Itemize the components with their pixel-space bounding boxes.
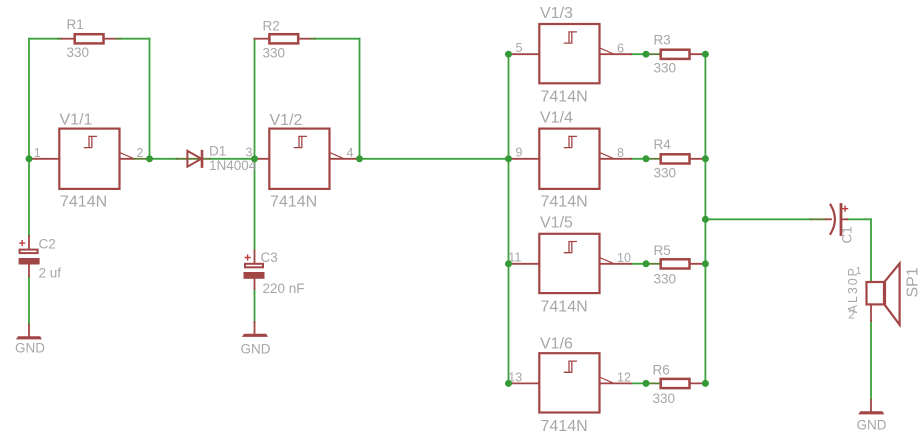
op-amp gate V1/4	[509, 129, 632, 189]
svg-text:9: 9	[516, 145, 523, 159]
capacitor C1 (polarized, horizontal)	[811, 205, 847, 235]
svg-text:12: 12	[617, 371, 631, 385]
svg-text:GND: GND	[15, 341, 45, 356]
svg-text:1N4004: 1N4004	[209, 158, 257, 173]
svg-text:7414N: 7414N	[270, 193, 317, 210]
capacitor C3 (polarized)	[244, 251, 265, 290]
svg-text:C1: C1	[840, 226, 855, 243]
junction node C1 branch	[702, 216, 709, 223]
resistor R1	[58, 34, 120, 43]
junction node pin1/C2	[26, 155, 33, 162]
resistor R3	[649, 50, 706, 59]
wire input bus vertical	[508, 54, 510, 383]
plus sign of C1	[843, 206, 848, 211]
svg-text:330: 330	[654, 61, 677, 76]
svg-text:10: 10	[617, 251, 631, 265]
wire branch to C1	[705, 218, 811, 220]
wire net N$4 vertical down to pin4	[359, 39, 361, 159]
wire net N$2 pin2 to diode	[150, 158, 177, 160]
ground symbol GND (C3)	[242, 322, 268, 337]
plus sign of C3	[245, 255, 250, 260]
junction node 4	[356, 155, 363, 162]
resistor R6	[649, 379, 706, 388]
wire net N$1 top horizontal to R1	[29, 38, 60, 40]
wire net N$4 long horizontal to inputs bus	[360, 158, 509, 160]
svg-text:4: 4	[347, 146, 354, 160]
op-amp gate V1/3	[509, 24, 632, 83]
resistor R5	[649, 259, 706, 268]
plus sign of C2	[20, 241, 25, 246]
junction node pin2/R1	[146, 155, 153, 162]
junction node pin5	[505, 51, 512, 58]
svg-text:8: 8	[617, 146, 624, 160]
ground symbol GND (C2)	[16, 325, 42, 340]
wire net N$1 left vertical	[28, 39, 30, 236]
wire net N$3 vertical R2-junction3-C3	[254, 39, 256, 251]
svg-text:C3: C3	[261, 250, 278, 265]
svg-text:7414N: 7414N	[541, 193, 588, 210]
op-amp gate V1/2 (7414 schmitt inverter)	[255, 129, 357, 189]
svg-text:R4: R4	[654, 137, 672, 152]
svg-text:7414N: 7414N	[541, 299, 588, 316]
svg-text:2: 2	[137, 146, 144, 160]
wire pin6 to R3	[631, 53, 646, 55]
op-amp gate V1/6	[509, 353, 632, 412]
svg-text:V1/6: V1/6	[540, 336, 573, 353]
svg-text:1: 1	[34, 146, 41, 160]
svg-text:5: 5	[516, 41, 523, 55]
svg-text:220 nF: 220 nF	[263, 281, 305, 296]
junction node R6 out	[702, 380, 709, 387]
junction node R3 out	[702, 51, 709, 58]
junction node pin8	[643, 155, 650, 162]
junction node R4 out	[702, 155, 709, 162]
svg-text:R5: R5	[654, 243, 671, 258]
junction node pin13	[505, 380, 512, 387]
svg-text:GND: GND	[241, 342, 271, 357]
svg-text:2 uf: 2 uf	[39, 266, 62, 281]
svg-text:7414N: 7414N	[541, 418, 588, 435]
svg-text:V1/2: V1/2	[270, 112, 303, 129]
wire C1 to corner	[847, 218, 871, 220]
resistor R2	[255, 34, 316, 43]
svg-text:V1/1: V1/1	[60, 111, 93, 128]
svg-text:330: 330	[654, 271, 677, 286]
wire net N$4 from R2 right	[314, 38, 360, 40]
wire net N$2 vertical down to pin2	[149, 39, 151, 159]
wire corner down to speaker	[870, 219, 872, 281]
svg-text:1: 1	[856, 265, 862, 277]
junction node pin10	[643, 260, 650, 267]
wire output bus vertical	[704, 54, 706, 383]
svg-text:330: 330	[653, 391, 676, 406]
wire speaker to GND	[870, 321, 872, 400]
svg-text:R1: R1	[67, 17, 84, 32]
op-amp gate V1/5	[509, 234, 632, 293]
wire net N$3 diode to junction 3	[210, 158, 255, 160]
wire C3 to GND	[254, 289, 256, 322]
svg-text:C2: C2	[39, 236, 56, 251]
svg-text:R3: R3	[654, 33, 671, 48]
svg-text:R2: R2	[263, 19, 280, 34]
svg-text:6: 6	[617, 41, 624, 55]
resistor R4	[649, 154, 706, 163]
svg-text:V1/4: V1/4	[540, 109, 573, 126]
junction node 3	[251, 155, 258, 162]
svg-text:2: 2	[848, 307, 855, 321]
junction node pin11	[505, 260, 512, 267]
junction node pin9	[505, 155, 512, 162]
svg-text:330: 330	[67, 45, 90, 60]
op-amp gate V1/1 (7414 schmitt inverter)	[29, 129, 146, 189]
wire C2 to GND	[28, 277, 30, 325]
svg-text:R6: R6	[653, 362, 670, 377]
wire pin8 to R4	[631, 158, 646, 160]
svg-text:7414N: 7414N	[541, 89, 588, 106]
svg-text:330: 330	[654, 165, 677, 180]
wire pin12 to R6	[631, 382, 646, 384]
diode D1	[177, 151, 211, 167]
svg-text:V1/5: V1/5	[540, 215, 573, 232]
speaker SP1	[867, 263, 900, 324]
wire net N$2 from R1 right	[120, 38, 150, 40]
svg-text:GND: GND	[857, 418, 887, 433]
junction node R5 out	[702, 260, 709, 267]
svg-text:330: 330	[263, 46, 286, 61]
svg-text:7414N: 7414N	[60, 193, 107, 210]
svg-text:SP1: SP1	[905, 267, 922, 297]
junction node pin12	[643, 380, 650, 387]
ground symbol GND (SP1)	[858, 400, 884, 414]
capacitor C2 (polarized)	[19, 236, 40, 277]
svg-text:V1/3: V1/3	[540, 5, 573, 22]
wire pin10 to R5	[631, 263, 646, 265]
svg-text:D1: D1	[209, 144, 226, 159]
junction node pin6	[643, 51, 650, 58]
